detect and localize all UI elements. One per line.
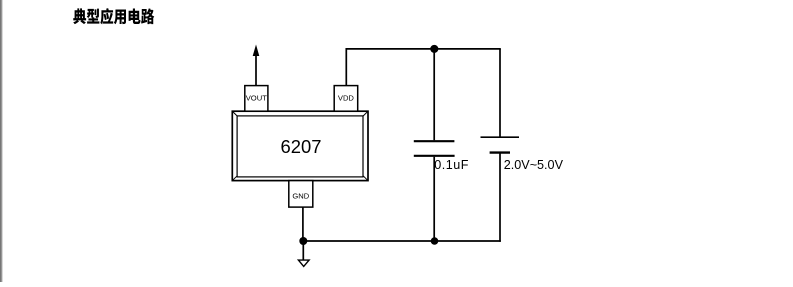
wire: GND pin down to ground rail (302, 207, 304, 241)
junction node: ground rail / GND pin (299, 237, 307, 245)
ground symbol (open triangle) (298, 260, 309, 266)
junction node: ground rail / C1 (431, 237, 439, 245)
pin box VDD (334, 86, 358, 112)
wire: VOUT arrow stem (255, 55, 257, 86)
IC U1 corner bevels (233, 112, 368, 181)
pin box GND (289, 181, 313, 208)
battery BT1 positive plate (481, 136, 520, 138)
svg-text:VOUT: VOUT (246, 94, 267, 103)
junction node: supply rail / C1 (430, 45, 438, 53)
wire: capacitor C1 bottom to ground rail (433, 157, 435, 241)
title: 典型应用电路 (typical application circuit) (73, 8, 154, 24)
wire: battery negative down to ground rail (499, 153, 501, 242)
capacitor C1 bottom plate (414, 155, 455, 157)
wire: stub to ground symbol (302, 241, 304, 260)
svg-text:2.0V~5.0V: 2.0V~5.0V (504, 158, 564, 172)
svg-text:6207: 6207 (281, 136, 322, 157)
IC U1 6207 inner body (237, 116, 363, 177)
IC U1 6207 outer body (232, 111, 368, 180)
capacitor C1 top plate (414, 140, 455, 142)
svg-text:GND: GND (292, 192, 309, 201)
svg-text:VDD: VDD (338, 94, 355, 103)
wire: ground rail horizontal (303, 240, 501, 242)
pin box VOUT (245, 86, 268, 112)
wire: supply rail right vertical to battery positive (499, 49, 501, 137)
wire: supply rail down to capacitor C1 (433, 49, 435, 140)
svg-text:0.1uF: 0.1uF (434, 158, 469, 172)
battery BT1 negative plate (490, 151, 510, 153)
VOUT output arrowhead (253, 45, 260, 57)
wire: VDD pin up and over to supply rail (346, 49, 501, 86)
